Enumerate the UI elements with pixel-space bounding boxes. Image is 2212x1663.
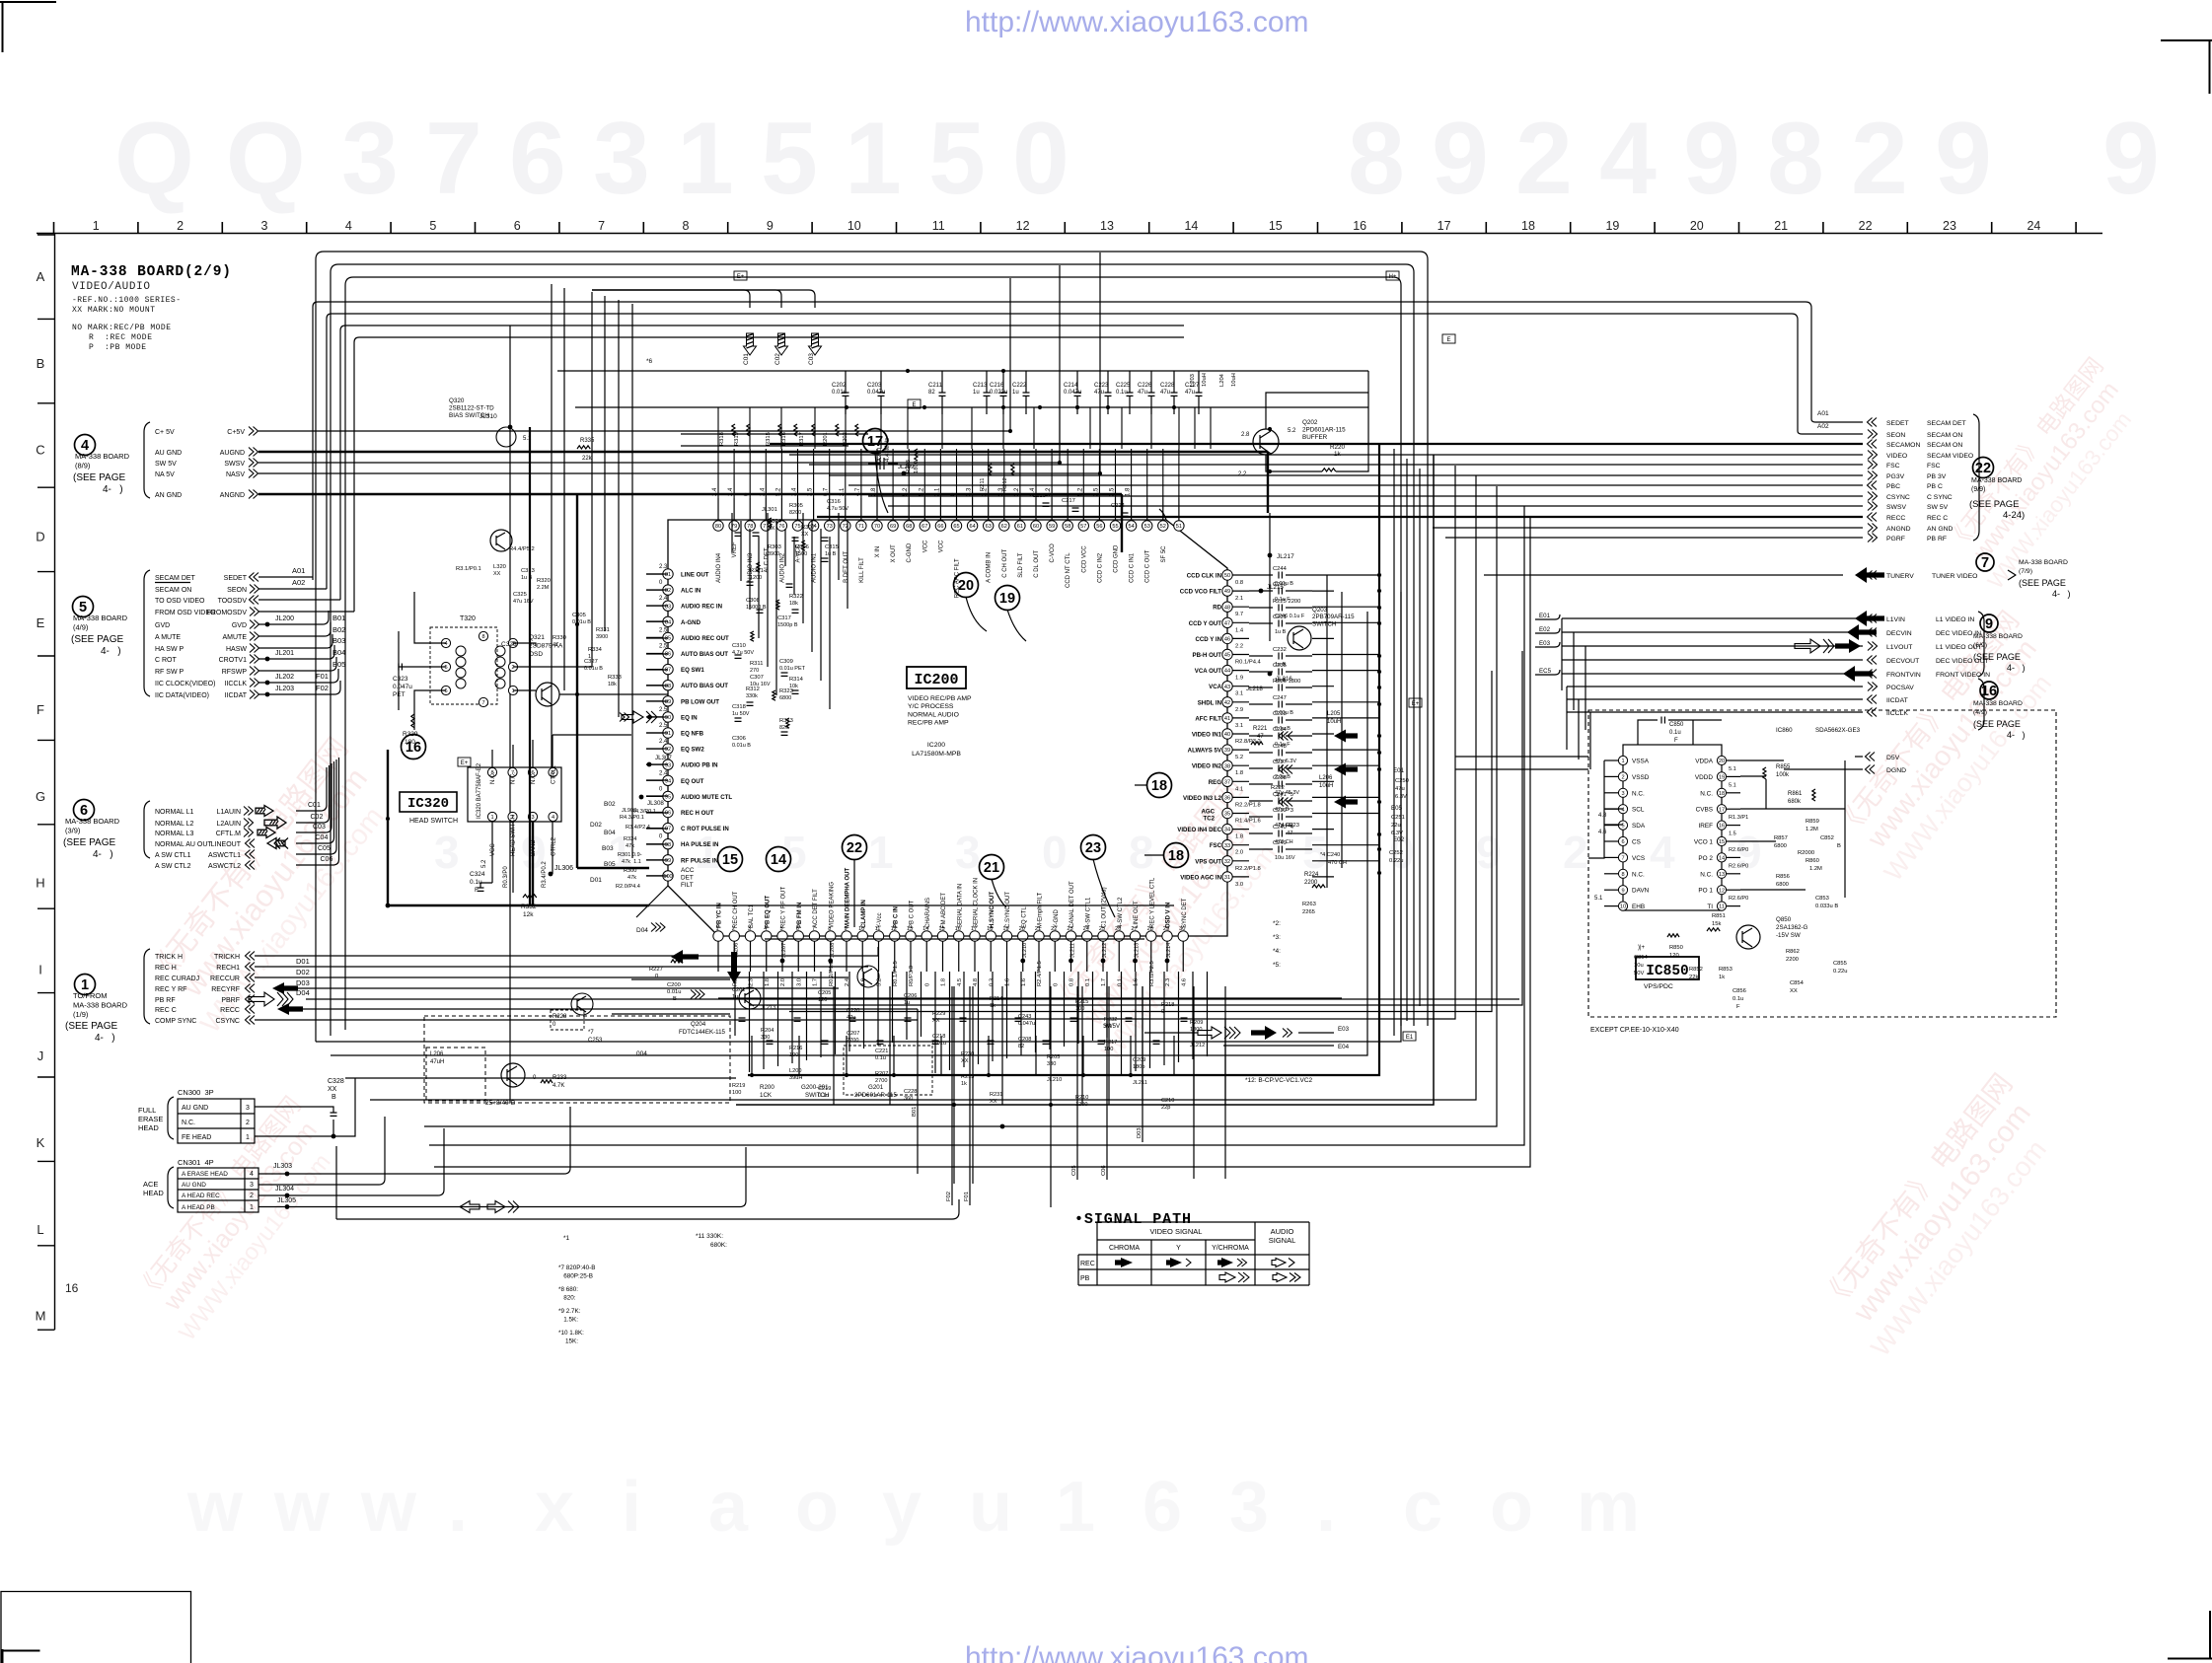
- svg-text:w: w: [186, 1468, 244, 1547]
- svg-text:D04: D04: [296, 988, 310, 997]
- svg-text:N.C.: N.C.: [1632, 871, 1645, 878]
- svg-text:5: 5: [761, 102, 818, 216]
- svg-text:SWSV: SWSV: [224, 461, 245, 468]
- svg-text:C317: C317: [777, 615, 791, 621]
- svg-text:1: 1: [1621, 759, 1624, 764]
- svg-text:AUTO BIAS OUT: AUTO BIAS OUT: [681, 683, 728, 689]
- svg-text:0.033u B: 0.033u B: [1815, 904, 1838, 909]
- svg-text:VIDEO IN2: VIDEO IN2: [1192, 763, 1222, 770]
- svg-text:10uH: 10uH: [1202, 373, 1208, 387]
- svg-text:PET: PET: [393, 691, 406, 698]
- svg-text:15: 15: [1269, 219, 1283, 233]
- svg-text:15: 15: [1719, 839, 1725, 845]
- svg-text:2.3: 2.3: [659, 564, 668, 570]
- svg-text:(SEE PAGE: (SEE PAGE: [63, 837, 115, 848]
- svg-text:2.4: 2.4: [760, 487, 766, 496]
- svg-text:E+: E+: [461, 760, 469, 766]
- svg-text:JL201: JL201: [275, 650, 294, 657]
- svg-text:20: 20: [1719, 759, 1725, 764]
- svg-text:SLD FILT: SLD FILT: [1018, 552, 1024, 578]
- IC860 right pins: [1717, 756, 1726, 764]
- svg-text:81: 81: [665, 572, 671, 578]
- svg-text:x: x: [535, 1468, 574, 1547]
- svg-text:QQ: QQ: [114, 102, 337, 216]
- svg-text:10uH: 10uH: [1319, 783, 1333, 789]
- T320 outer wires: [399, 592, 446, 730]
- JL307 JL308 dots: [647, 762, 652, 767]
- svg-text:R205: R205: [1047, 1054, 1060, 1060]
- svg-text:C209: C209: [1133, 1057, 1145, 1063]
- svg-text:SDA: SDA: [1632, 823, 1646, 830]
- svg-text:2: 2: [246, 1120, 250, 1126]
- IC320 label box: [400, 792, 457, 812]
- svg-text:C219: C219: [818, 1086, 831, 1092]
- svg-text:L: L: [37, 1222, 43, 1237]
- svg-text:IC320 BA7758AF-E2: IC320 BA7758AF-E2: [477, 762, 482, 819]
- svg-text:1.9: 1.9: [1235, 676, 1243, 682]
- svg-text:2.5: 2.5: [659, 644, 668, 650]
- right row POCSAV: [1868, 683, 1878, 691]
- svg-text:http://www.xiaoyu163.com: http://www.xiaoyu163.com: [965, 1641, 1309, 1663]
- svg-text:AMUTE: AMUTE: [223, 634, 248, 641]
- bottom long wires: [612, 905, 1174, 1014]
- svg-text:19: 19: [1719, 775, 1725, 781]
- svg-text:2: 2: [1621, 775, 1624, 781]
- svg-text:6800: 6800: [1774, 843, 1787, 849]
- svg-text:C05: C05: [318, 845, 331, 852]
- svg-text:47u: 47u: [1160, 390, 1170, 396]
- Q203 switch transistor: [1288, 626, 1311, 650]
- resistor R317: [812, 424, 815, 436]
- svg-text:CTRL1: CTRL1: [552, 764, 557, 784]
- svg-text:SWITCH: SWITCH: [1312, 620, 1336, 627]
- svg-text:SW 5V: SW 5V: [155, 461, 177, 468]
- svg-text:SF 5C: SF 5C: [1161, 545, 1167, 563]
- svg-text:100: 100: [789, 1052, 798, 1058]
- svg-text:Q204: Q204: [691, 1021, 706, 1028]
- svg-text:0: 0: [1042, 827, 1068, 878]
- svg-text:44: 44: [1224, 669, 1230, 675]
- svg-text:a: a: [708, 1468, 749, 1547]
- svg-text:Q203: Q203: [1312, 607, 1328, 614]
- group 6 bracket: [144, 801, 150, 858]
- svg-text:B: B: [37, 356, 45, 371]
- svg-text:2200: 2200: [1786, 957, 1799, 963]
- svg-text:R300: R300: [624, 868, 636, 874]
- svg-text:A SW CTL1: A SW CTL1: [155, 852, 191, 859]
- svg-text:3: 3: [246, 1105, 250, 1112]
- Q321 transistor: [536, 683, 559, 706]
- svg-text:COMP SYNC: COMP SYNC: [155, 1018, 196, 1025]
- svg-text:39: 39: [1224, 748, 1230, 754]
- svg-text:(SEE PAGE: (SEE PAGE: [65, 1021, 117, 1032]
- svg-text:B01: B01: [912, 1107, 918, 1117]
- D5V DGND arrows: [1866, 753, 1876, 761]
- balloon 20: [954, 573, 979, 598]
- svg-text:5.2: 5.2: [1235, 755, 1243, 760]
- right row SEDET: [1868, 418, 1878, 427]
- svg-text:RFSWP: RFSWP: [222, 669, 248, 676]
- svg-text:R214: R214: [990, 996, 1002, 1002]
- connector group 4 balloon: [75, 435, 96, 456]
- svg-text:-REF.NO.:1000 SERIES-: -REF.NO.:1000 SERIES-: [72, 296, 181, 305]
- svg-text:SWSV: SWSV: [1886, 504, 1906, 511]
- svg-text:F: F: [1736, 1004, 1740, 1010]
- svg-text:FE HEAD: FE HEAD: [182, 1134, 211, 1141]
- svg-text:5: 5: [928, 102, 986, 216]
- svg-text:GVD: GVD: [155, 622, 170, 629]
- svg-text:1k: 1k: [1719, 975, 1725, 980]
- svg-text:PO 1: PO 1: [1698, 888, 1713, 895]
- svg-text:1.7: 1.7: [813, 978, 819, 986]
- svg-text:0.8: 0.8: [1235, 580, 1243, 586]
- svg-text:R221: R221: [1253, 726, 1268, 732]
- svg-text:•SIGNAL PATH: •SIGNAL PATH: [1074, 1211, 1191, 1228]
- svg-text:4- ): 4- ): [101, 646, 121, 657]
- resistor R319: [747, 424, 750, 436]
- svg-text:VSSD: VSSD: [1632, 774, 1650, 781]
- svg-text:A HEAD PB: A HEAD PB: [182, 1204, 215, 1211]
- svg-text:88: 88: [665, 684, 671, 689]
- svg-text:L203: L203: [1190, 374, 1196, 387]
- resistor R201: [836, 424, 839, 436]
- svg-text:73: 73: [827, 524, 833, 530]
- watermark pink diagonal right upper: [1939, 353, 2152, 594]
- svg-text:2265: 2265: [1302, 909, 1315, 915]
- svg-text:ACC DET FILT: ACC DET FILT: [813, 889, 819, 928]
- IC200 bottom pins 1-30: [713, 931, 723, 941]
- svg-text:1.5: 1.5: [1729, 831, 1736, 837]
- svg-text:SHDL IN: SHDL IN: [1198, 699, 1221, 706]
- svg-text:25+8/40-B: 25+8/40-B: [485, 1100, 515, 1107]
- svg-text:1.2M: 1.2M: [1809, 866, 1822, 872]
- svg-text:N.C.: N.C.: [511, 772, 517, 784]
- svg-text:0.1u: 0.1u: [1733, 996, 1743, 1002]
- svg-text:B02: B02: [604, 801, 616, 808]
- bottom component forest: [735, 972, 1208, 1074]
- svg-text:REC/PB AMP: REC/PB AMP: [908, 720, 949, 727]
- svg-text:R320: R320: [537, 578, 551, 584]
- svg-text:LINE OUT: LINE OUT: [681, 572, 709, 579]
- svg-text:ALC IN: ALC IN: [681, 588, 700, 595]
- svg-text:10u 16V: 10u 16V: [1275, 855, 1295, 861]
- svg-text:13: 13: [1719, 872, 1725, 878]
- svg-text:2.2: 2.2: [1238, 471, 1247, 477]
- svg-text:R3.4/P0.2: R3.4/P0.2: [542, 861, 548, 888]
- svg-text:270: 270: [750, 668, 759, 674]
- svg-text:97: 97: [665, 827, 671, 832]
- svg-text:3: 3: [531, 815, 534, 821]
- svg-text:4- ): 4- ): [95, 1033, 115, 1044]
- svg-text:K: K: [37, 1135, 45, 1150]
- svg-text:FSC: FSC: [1210, 842, 1222, 849]
- svg-text:FSC: FSC: [1927, 463, 1941, 470]
- svg-text:VCC: VCC: [490, 843, 496, 856]
- component C247: [1249, 703, 1273, 705]
- svg-text:C01: C01: [743, 353, 750, 365]
- svg-text:E: E: [1446, 337, 1450, 343]
- svg-text:DECVIN: DECVIN: [1886, 630, 1912, 637]
- svg-text:REC CH OUT: REC CH OUT: [733, 891, 739, 928]
- svg-text:B04: B04: [604, 830, 616, 836]
- svg-text:54: 54: [1128, 524, 1134, 530]
- svg-text:A02: A02: [1817, 423, 1829, 430]
- svg-text:C206: C206: [904, 993, 917, 999]
- svg-text:5: 5: [444, 665, 447, 671]
- svg-text:JL211: JL211: [1133, 1080, 1147, 1086]
- svg-text:47u: 47u: [847, 1015, 855, 1021]
- svg-text:1.8: 1.8: [1235, 834, 1243, 840]
- svg-text:C251: C251: [1391, 815, 1405, 821]
- svg-text:2: 2: [511, 665, 514, 671]
- svg-text:E1: E1: [1406, 1035, 1414, 1041]
- svg-text:*9 2.7K:: *9 2.7K:: [558, 1308, 581, 1315]
- svg-text:CANAL DET OUT: CANAL DET OUT: [1069, 881, 1075, 928]
- svg-text:R216: R216: [789, 1046, 802, 1051]
- svg-text:0.1u: 0.1u: [875, 1055, 886, 1061]
- svg-text:SEDET: SEDET: [224, 575, 248, 582]
- JL215 JL216 dots: [1259, 589, 1264, 594]
- svg-text:IC860: IC860: [1776, 727, 1793, 734]
- svg-text:VCC: VCC: [922, 540, 928, 552]
- svg-text:*8 680:: *8 680:: [558, 1286, 578, 1293]
- svg-text:B: B: [673, 996, 677, 1002]
- svg-text:*2:: *2:: [1273, 920, 1281, 927]
- svg-text:6: 6: [1621, 839, 1624, 845]
- svg-text:1.8: 1.8: [1235, 770, 1243, 776]
- svg-text:1.4: 1.4: [1235, 627, 1244, 633]
- svg-text:JL217: JL217: [1277, 553, 1294, 560]
- svg-text:REC Y LEVEL CTL: REC Y LEVEL CTL: [1149, 877, 1155, 928]
- svg-text:13: 13: [1100, 219, 1114, 233]
- svg-text:N.C.: N.C.: [182, 1120, 195, 1126]
- svg-text:VCA OUT: VCA OUT: [1195, 668, 1221, 675]
- svg-text:A: A: [37, 269, 45, 284]
- svg-text:Y/CHROMA: Y/CHROMA: [1212, 1245, 1249, 1252]
- balloon 19: [995, 586, 1020, 611]
- svg-text:2.2M: 2.2M: [537, 585, 550, 591]
- svg-text:C328: C328: [328, 1078, 344, 1085]
- svg-text:PBRF: PBRF: [221, 997, 240, 1004]
- svg-text:RECH1: RECH1: [216, 965, 240, 972]
- svg-text:004: 004: [636, 1050, 647, 1057]
- svg-text:A02: A02: [292, 578, 305, 587]
- wire bus bottom lines stepped corners: [718, 997, 1342, 999]
- svg-text:C ROT: C ROT: [155, 657, 178, 664]
- right row L1VIN: [1868, 615, 1878, 623]
- svg-text:5.2: 5.2: [775, 487, 781, 496]
- svg-text:E02: E02: [1393, 836, 1405, 843]
- svg-text:2.4: 2.4: [659, 739, 668, 745]
- svg-text:4.8: 4.8: [1598, 813, 1607, 819]
- svg-text:L206: L206: [1319, 775, 1333, 781]
- svg-text:R330: R330: [553, 635, 566, 641]
- svg-text:SEON: SEON: [227, 587, 247, 594]
- svg-text:0.022u: 0.022u: [990, 390, 1007, 396]
- svg-text:18: 18: [1168, 848, 1184, 864]
- IC200 left pins 81-100: [663, 569, 673, 579]
- connector group 1 balloon: [75, 975, 96, 995]
- EQ IN open arrow: [622, 711, 643, 723]
- svg-text:.47: .47: [1275, 793, 1283, 799]
- C323 cap: [399, 664, 402, 671]
- svg-text:REC H: REC H: [155, 965, 177, 972]
- svg-text:0.01u B: 0.01u B: [732, 743, 751, 749]
- CN301 junction dots: [285, 1172, 290, 1177]
- svg-text:XX: XX: [961, 1058, 969, 1064]
- svg-text:4.1: 4.1: [1235, 786, 1243, 792]
- svg-text:80: 80: [715, 524, 721, 530]
- svg-text:JL203: JL203: [275, 686, 294, 692]
- svg-text:JL306: JL306: [554, 865, 573, 872]
- component C241: [1249, 800, 1273, 802]
- right row IICDAT: [1868, 695, 1878, 704]
- svg-text:XX: XX: [801, 532, 809, 538]
- svg-text:5: 5: [429, 219, 436, 233]
- svg-text:0: 0: [655, 974, 658, 979]
- svg-text:1.8: 1.8: [941, 978, 947, 986]
- svg-text:2: 2: [1563, 827, 1588, 878]
- svg-text:E05: E05: [1391, 805, 1403, 812]
- svg-text:NASV: NASV: [226, 471, 245, 478]
- svg-text:94: 94: [665, 778, 671, 784]
- svg-text:4- ): 4- ): [93, 849, 113, 860]
- svg-text:JL211: JL211: [1070, 943, 1076, 958]
- svg-text:EQ NFB: EQ NFB: [681, 731, 704, 738]
- svg-text:*4:: *4:: [1273, 948, 1281, 955]
- svg-text:17: 17: [1438, 219, 1451, 233]
- svg-text:R862: R862: [1786, 949, 1800, 955]
- svg-text:2700: 2700: [875, 1078, 887, 1084]
- svg-text:3: 3: [250, 1182, 254, 1189]
- svg-text:39uH: 39uH: [789, 1075, 802, 1081]
- wire bottom long lines CN301: [258, 1107, 570, 1174]
- svg-text:60: 60: [1033, 524, 1039, 530]
- svg-text:1200: 1200: [750, 575, 762, 581]
- svg-text:22p: 22p: [1161, 1105, 1170, 1111]
- svg-text:RECCUR: RECCUR: [210, 976, 240, 982]
- svg-text:0: 0: [1161, 1009, 1164, 1015]
- svg-text:ERASE: ERASE: [138, 1115, 163, 1123]
- svg-text:C248: C248: [1273, 744, 1287, 750]
- svg-text:L320: L320: [493, 564, 506, 570]
- svg-text:JL218: JL218: [1246, 686, 1263, 692]
- capacitor C223: [1107, 371, 1109, 393]
- svg-text:IIC DATA(VIDEO): IIC DATA(VIDEO): [155, 692, 209, 699]
- svg-text:3: 3: [593, 102, 650, 216]
- bottom transistors: [571, 993, 593, 1015]
- boxed tag E+: [1409, 698, 1422, 707]
- svg-text:18k: 18k: [608, 682, 617, 687]
- svg-text:CHARAINS: CHARAINS: [925, 898, 931, 928]
- svg-text:R207: R207: [875, 1071, 888, 1077]
- svg-text:Y-Vcc: Y-Vcc: [877, 913, 883, 928]
- svg-text:(1/9): (1/9): [73, 1010, 89, 1019]
- svg-text:0.047u: 0.047u: [867, 390, 885, 396]
- svg-text:C+ 5V: C+ 5V: [155, 429, 175, 436]
- svg-text:FROMOSDV: FROMOSDV: [207, 610, 248, 616]
- svg-text:47u: 47u: [1138, 390, 1147, 396]
- vertical net tags C05 C06 D03 F01 F02: [1076, 986, 1078, 1180]
- component C238: [1249, 783, 1273, 785]
- svg-text:1800: 1800: [1190, 1027, 1202, 1033]
- svg-text:NORMAL L1: NORMAL L1: [155, 809, 194, 816]
- svg-text:4-SW CTL1: 4-SW CTL1: [1085, 897, 1091, 928]
- svg-text:FM ABC DET: FM ABC DET: [941, 893, 947, 928]
- balloon 23: [1081, 835, 1106, 860]
- svg-text:C.SYNC OUT: C.SYNC OUT: [1005, 892, 1011, 928]
- svg-text:83: 83: [665, 604, 671, 610]
- svg-text:C211: C211: [928, 383, 943, 389]
- svg-text:49: 49: [1224, 589, 1230, 595]
- svg-text:820:: 820:: [558, 1295, 576, 1302]
- svg-text:RECYRF: RECYRF: [211, 986, 240, 993]
- svg-text:C249: C249: [1273, 840, 1287, 846]
- svg-text:1u: 1u: [1012, 390, 1019, 396]
- svg-text:JL305: JL305: [277, 1197, 296, 1204]
- svg-text:2.0: 2.0: [780, 978, 786, 986]
- svg-text:4: 4: [444, 641, 447, 647]
- balloon 18: [1164, 843, 1189, 868]
- svg-text:EQ SW2: EQ SW2: [681, 747, 704, 754]
- svg-text:C ROT PULSE IN: C ROT PULSE IN: [681, 826, 729, 832]
- svg-text:R851: R851: [1712, 913, 1726, 919]
- svg-text:47: 47: [1257, 734, 1264, 740]
- svg-text:4: 4: [552, 815, 554, 821]
- svg-text:VCS: VCS: [1632, 855, 1645, 862]
- svg-text:59: 59: [1049, 524, 1055, 530]
- svg-text:1.8: 1.8: [765, 978, 771, 986]
- right row SECAMON: [1868, 440, 1878, 449]
- svg-text:C855: C855: [1833, 961, 1847, 967]
- svg-text:C218: C218: [932, 1034, 945, 1040]
- svg-text:1.6: 1.6: [1021, 978, 1027, 986]
- svg-text:1k: 1k: [961, 1081, 967, 1087]
- svg-text:EXCEPT CP.EE-10-X10-X40: EXCEPT CP.EE-10-X10-X40: [1590, 1027, 1679, 1034]
- right row FRONTVIN: [1868, 670, 1878, 679]
- svg-text:C226: C226: [1138, 383, 1152, 389]
- svg-text:66: 66: [937, 524, 943, 530]
- svg-text:PB FM IN: PB FM IN: [797, 903, 803, 928]
- JL217: [1268, 553, 1273, 558]
- svg-text:680K:: 680K:: [710, 1242, 727, 1249]
- svg-text:C214: C214: [1064, 383, 1078, 389]
- svg-text:64: 64: [969, 524, 975, 530]
- svg-text:T320: T320: [460, 615, 476, 622]
- component R226: [1249, 687, 1273, 688]
- svg-text:u: u: [969, 1468, 1012, 1547]
- svg-text:75: 75: [794, 524, 800, 530]
- svg-text:R219: R219: [732, 1083, 745, 1089]
- svg-text:AU GND: AU GND: [182, 1182, 206, 1189]
- svg-text:9: 9: [1476, 827, 1502, 878]
- svg-text:TO/FROM: TO/FROM: [73, 991, 107, 1000]
- svg-text:4- ): 4- ): [2052, 589, 2071, 599]
- group5 overline SECAM ON: [155, 582, 190, 584]
- svg-text:X IN: X IN: [875, 546, 881, 558]
- svg-text:PB RF: PB RF: [1927, 536, 1947, 542]
- balloon pointer lines: [854, 453, 1164, 927]
- svg-text:D01: D01: [590, 877, 602, 884]
- svg-text:21: 21: [984, 860, 999, 876]
- svg-text:2.4: 2.4: [712, 487, 718, 496]
- svg-text:34: 34: [1224, 828, 1230, 833]
- svg-text:C03: C03: [808, 353, 815, 365]
- svg-text:0.8: 0.8: [1069, 978, 1075, 986]
- svg-text:0.01u: 0.01u: [667, 989, 682, 995]
- svg-text:0: 0: [1053, 983, 1059, 986]
- svg-text:IREF: IREF: [1698, 823, 1713, 830]
